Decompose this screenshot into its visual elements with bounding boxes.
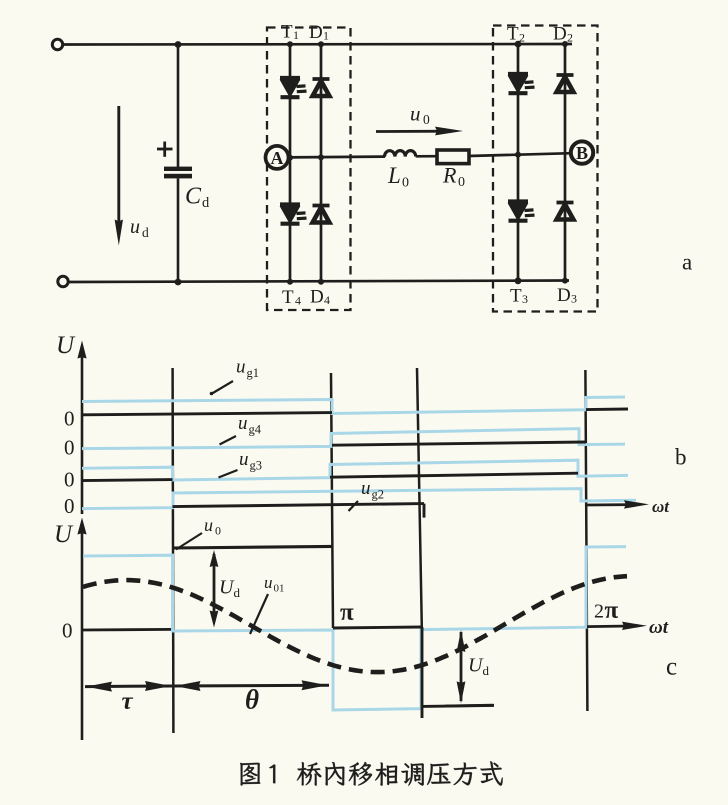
axis: part c omega-t arrow (587, 625, 630, 628)
svg-text:π: π (340, 599, 354, 626)
dimension arrow Ud (left) (213, 554, 216, 622)
wire: D2 branch (564, 44, 567, 153)
diode D3 (557, 201, 574, 205)
arrow: ud voltage direction (117, 106, 120, 226)
thyristor T3 (508, 199, 528, 203)
svg-text:0: 0 (402, 176, 409, 191)
waveform u0 square high (black) (173, 546, 333, 548)
svg-text:u: u (361, 478, 371, 499)
wire: T2 branch (517, 44, 520, 155)
wire: top DC rail (63, 43, 572, 46)
waveform ug4 high (black) (332, 442, 586, 445)
svg-text:d: d (234, 585, 241, 600)
wire: mid rail A to L0 (288, 155, 385, 158)
diode D4 (313, 204, 330, 208)
svg-text:u: u (236, 357, 246, 378)
junction: bottom rail / D3 (562, 278, 568, 284)
pointer to ug1 (212, 381, 233, 394)
pointer to u0 (176, 533, 202, 550)
node A (266, 146, 289, 169)
waveform ug3 (cyan) (82, 460, 628, 480)
wire: D4 branch (320, 158, 323, 282)
gridline omega-t = tau (171, 368, 174, 733)
waveform u0 square zero (black) (333, 627, 422, 628)
junction: top rail / T2 (515, 41, 522, 48)
svg-text:u: u (239, 449, 249, 470)
waveform ug3 high (black) (82, 480, 173, 481)
svg-text:g3: g3 (250, 459, 263, 473)
svg-text:D: D (557, 285, 571, 306)
svg-text:2: 2 (594, 601, 604, 623)
svg-text:d: d (483, 663, 490, 678)
svg-text:1: 1 (293, 28, 299, 42)
wire: capacitor top lead (177, 45, 180, 168)
svg-text:c: c (666, 654, 677, 681)
waveform ug2 (cyan) (82, 489, 636, 509)
waveform ug1 (cyan) (82, 397, 625, 414)
svg-text:3: 3 (522, 292, 528, 306)
arrow: u0 output voltage (376, 130, 452, 133)
junction: mid rail / T2T3 (515, 152, 521, 158)
svg-text:g1: g1 (247, 366, 260, 380)
svg-text:T: T (281, 22, 293, 43)
junction: top rail / T1 (287, 41, 293, 47)
junction: bottom rail / Cd (175, 279, 182, 286)
thyristor T2 (508, 72, 528, 76)
junction: top rail / D1 (318, 41, 324, 47)
capacitor Cd top plate (164, 167, 192, 171)
pointer to ug2 (349, 501, 359, 511)
dimension arrow tau (85, 685, 172, 689)
svg-text:ωt: ωt (649, 617, 669, 638)
waveform u0 square step down (black) (421, 627, 424, 718)
gridline omega-t = 2pi (585, 370, 587, 711)
svg-text:4: 4 (324, 293, 330, 307)
axis: part b omega-t arrow (587, 503, 633, 506)
dimension arrow Ud (right) (460, 632, 463, 701)
svg-text:L: L (387, 163, 401, 188)
svg-text:D: D (309, 22, 323, 43)
dashed enclosure: left bridge leg (267, 28, 351, 311)
svg-text:A: A (271, 148, 284, 168)
pointer to ug3 (219, 470, 238, 478)
wire: capacitor bottom lead (177, 178, 180, 282)
gridline omega-t = pi (331, 373, 333, 628)
svg-text:1: 1 (323, 29, 329, 43)
diode D2 (557, 73, 574, 77)
junction: top rail / D2 (562, 41, 568, 47)
wire: T1 branch (289, 44, 292, 158)
wire: L0 to R0 (416, 155, 437, 158)
svg-text:B: B (576, 143, 588, 163)
waveform ug4 (cyan) (82, 429, 625, 449)
svg-text:u: u (238, 413, 248, 434)
dimension arrow theta (173, 684, 329, 688)
svg-text:0: 0 (458, 175, 465, 190)
svg-text:π: π (605, 597, 619, 624)
reference line -Ud level (445, 704, 494, 708)
svg-text:0: 0 (62, 619, 73, 643)
svg-text:0: 0 (64, 436, 75, 460)
junction: mid rail / T1T4 (287, 155, 293, 161)
waveform u0 square (cyan) (83, 547, 626, 710)
svg-text:0: 0 (423, 112, 430, 127)
junction: bottom rail / T3 (515, 277, 522, 284)
wire: R0 to node B (469, 153, 572, 156)
svg-text:b: b (675, 445, 687, 470)
svg-text:T: T (282, 287, 294, 308)
wire: T3 branch (517, 155, 520, 281)
resistor R0 (437, 150, 469, 164)
svg-text:U: U (54, 521, 74, 548)
wire: bottom DC rail (69, 281, 570, 283)
svg-text:a: a (682, 250, 692, 275)
svg-text:d: d (142, 225, 149, 240)
svg-text:g2: g2 (372, 488, 385, 502)
junction: bottom rail / T4 (287, 279, 293, 285)
wire: T4 branch (289, 158, 292, 282)
axis: part c U axis (81, 524, 84, 740)
thyristor T4 (280, 202, 300, 206)
wire: D3 branch (564, 153, 567, 280)
svg-text:D: D (310, 287, 324, 308)
svg-text:u: u (410, 102, 421, 126)
svg-text:d: d (202, 195, 210, 211)
capacitor Cd bottom plate (164, 174, 192, 179)
plus polarity mark (157, 148, 173, 151)
pointer to ug4 (220, 436, 237, 445)
svg-text:0: 0 (64, 407, 75, 431)
svg-text:C: C (185, 184, 202, 210)
thyristor T1 (280, 76, 300, 80)
axis: part b U axis (81, 346, 84, 514)
svg-text:u: u (130, 216, 140, 238)
svg-text:U: U (56, 332, 76, 359)
svg-text:2: 2 (567, 31, 573, 45)
svg-text:0: 0 (64, 494, 75, 518)
dashed enclosure: right bridge leg (493, 26, 598, 312)
svg-text:g4: g4 (249, 423, 262, 437)
waveform ug1 high (black) (82, 413, 332, 415)
svg-text:0: 0 (64, 468, 75, 492)
gridline omega-t = pi+tau (417, 368, 422, 627)
terminal: top-left input (52, 39, 62, 49)
axis: part c zero axis (black) (82, 628, 173, 631)
diode D1 (313, 77, 330, 81)
svg-text:3: 3 (571, 292, 577, 306)
svg-text:u: u (204, 515, 213, 535)
terminal: bottom-left input (58, 276, 68, 286)
pointer to u01 (250, 594, 268, 634)
junction: top rail / Cd (175, 41, 182, 48)
waveform u0 square low (black) (422, 705, 494, 706)
svg-text:R: R (442, 163, 457, 188)
waveform ug2 high (black) (173, 504, 425, 507)
svg-text:0: 0 (215, 524, 221, 538)
svg-text:u: u (264, 573, 273, 592)
junction: mid rail / D1D4 (318, 154, 324, 160)
svg-text:θ: θ (245, 685, 259, 715)
waveform u01 sinusoid (dashed) (83, 576, 627, 672)
svg-text:4: 4 (295, 294, 301, 308)
wire: D1 branch (320, 44, 323, 158)
svg-text:T: T (510, 286, 522, 307)
inductor L0 (384, 151, 415, 157)
svg-text:01: 01 (274, 583, 285, 595)
junction: bottom rail / D4 (318, 279, 324, 285)
caption: figure 1 title (Chinese) (240, 761, 503, 785)
node B (571, 141, 593, 163)
svg-text:ωt: ωt (652, 497, 670, 516)
svg-text:τ: τ (122, 688, 134, 715)
